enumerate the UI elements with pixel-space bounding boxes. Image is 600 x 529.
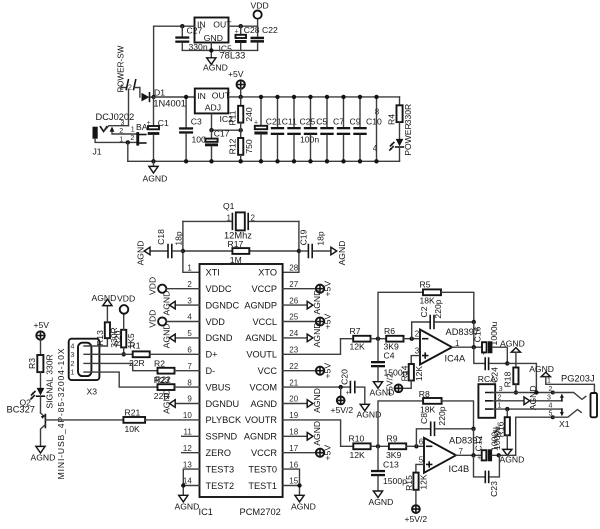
wire J1 down to ground rail [127,142,129,161]
svg-text:R6: R6 [384,326,395,336]
svg-text:2: 2 [415,330,420,339]
svg-text:AGNDL: AGNDL [245,333,277,343]
node C2 feedback [472,320,476,324]
svg-text:12K: 12K [350,342,366,352]
svg-text:R14: R14 [400,365,410,381]
wire D1 node to IC2 input [154,96,195,98]
wire jack pin1 sleeve [546,384,595,393]
svg-text:C22: C22 [262,25,278,35]
svg-text:ADJ: ADJ [205,103,221,113]
svg-text:330R: 330R [44,354,54,375]
wire output A [452,346,482,348]
svg-text:DGND: DGND [206,333,233,343]
connector J1 DCJ0202 [93,112,137,156]
node C17 bottom [209,159,213,163]
ground AGND jack sleeve [529,364,554,384]
resistor R13 [95,306,119,348]
terminal +5V/2 VCOM [331,387,354,415]
resistor R17 1M [183,239,299,265]
svg-text:VDD: VDD [117,294,135,304]
node R18 bottom [514,390,518,394]
ground AGND above R18 [500,339,525,368]
capacitor C17 [203,128,230,161]
svg-text:1: 1 [131,127,135,134]
capacitor C21 [254,95,282,164]
svg-text:X1: X1 [559,419,570,429]
ground AGND pin26 [283,290,322,315]
resistor R16 [492,409,510,450]
resistor R12 750 [228,130,255,161]
capacitor C12 1000u [474,427,516,462]
node C1 ground [151,159,155,163]
svg-text:VOUTL: VOUTL [246,350,277,360]
svg-text:VCCP: VCCP [251,284,277,294]
op-amp IC4A AD8397 [415,327,479,365]
svg-text:25: 25 [289,313,298,322]
svg-text:+5V: +5V [323,313,333,329]
wire feedback down to output A [473,322,475,347]
svg-text:1: 1 [71,370,75,377]
svg-text:VCC: VCC [258,366,278,376]
wire VOUTR pin19 [283,420,354,446]
svg-text:1N4001: 1N4001 [153,98,186,108]
node GND rail [209,48,213,52]
wire jack pin2 switch arm left [551,391,586,400]
svg-text:1: 1 [227,214,232,223]
node R10-R9 junction [376,444,380,448]
svg-text:AGND: AGND [31,453,56,463]
svg-text:3: 3 [415,346,420,355]
svg-text:PCM2702: PCM2702 [240,507,281,517]
svg-text:Q1: Q1 [223,201,235,211]
svg-text:BC327: BC327 [7,405,35,415]
svg-text:C2: C2 [419,306,429,317]
ground AGND after C20 [357,404,382,419]
capacitor C27 [175,25,208,52]
svg-text:R13: R13 [95,330,105,346]
svg-text:8: 8 [375,108,380,117]
wire IC5 GND stub [210,43,212,58]
svg-text:VCCL: VCCL [252,317,277,327]
svg-text:VDD: VDD [148,277,158,295]
svg-text:VDD: VDD [206,317,226,327]
resistor R18 [502,368,518,393]
resistor R5 18K feedback [378,280,474,339]
svg-text:AGND: AGND [161,323,171,348]
svg-text:21: 21 [289,378,298,387]
node rowB join [534,390,538,394]
svg-text:330R: 330R [403,104,413,125]
ground AGND pin5 [161,323,199,348]
svg-text:24: 24 [289,329,298,338]
svg-text:4: 4 [71,343,75,350]
svg-text:4: 4 [187,313,192,322]
svg-text:12K: 12K [350,450,366,460]
svg-text:AGND: AGND [92,293,117,303]
svg-text:16: 16 [289,460,298,469]
connector RCA [478,374,503,418]
wire XTI branch [183,221,200,272]
svg-text:C9: C9 [350,117,361,127]
capacitor C18 18p [150,229,184,258]
svg-text:AGND: AGND [528,385,538,410]
svg-text:R7: R7 [350,326,361,336]
wire X3 pin2 D- [84,363,158,370]
svg-text:AGNDP: AGNDP [244,300,277,310]
svg-text:VDDC: VDDC [206,284,232,294]
regulator IC5 78L33 [195,18,246,61]
resistor R3 330R [27,354,54,388]
svg-text:1: 1 [120,85,124,92]
svg-text:4: 4 [373,144,378,153]
svg-text:AGND: AGND [312,290,322,315]
svg-text:IC4B: IC4B [449,464,470,474]
capacitor C5 [304,95,328,164]
svg-text:20: 20 [289,395,298,404]
pin number labels IC1 [183,264,299,486]
svg-text:OUT: OUT [213,20,232,30]
svg-text:+5V: +5V [228,69,244,79]
svg-text:3: 3 [187,296,192,305]
capacitor C16 1000u [473,321,508,363]
capacitor C22 [251,25,278,50]
svg-text:C5: C5 [316,117,327,127]
node inverting input B [414,444,418,448]
svg-text:C20: C20 [339,369,349,385]
svg-text:AGND: AGND [312,388,322,413]
svg-text:DGNDU: DGNDU [206,399,240,409]
capacitor C20 [339,369,365,404]
svg-text:12K: 12K [419,474,429,490]
svg-text:VOUTR: VOUTR [245,415,278,425]
svg-text:+5V: +5V [323,363,333,379]
svg-text:AGND: AGND [529,364,554,374]
resistor R9 3K9 [386,434,424,460]
ground AGND pins16-15 [291,495,316,511]
capacitor C11 [271,95,297,164]
svg-text:D-: D- [206,366,216,376]
svg-text:R18: R18 [502,371,512,387]
op-amp IC4B AD8397 [419,436,483,474]
ground AGND under R16 [500,449,525,464]
node C27 top [180,24,184,28]
connector BA battery [130,122,147,145]
svg-text:R9: R9 [387,434,398,444]
ground AGND under C13 [369,491,394,507]
svg-text:2: 2 [187,280,192,289]
svg-text:POWER: POWER [403,123,413,155]
svg-text:2: 2 [71,361,75,368]
ground AGND pin9 [161,389,199,414]
svg-text:1000u: 1000u [489,321,499,345]
wire TEST0-TEST1 tie pins16-15 [283,469,300,495]
wire output B [456,454,482,456]
node R7-R6 junction [376,337,380,341]
node inverting input A [410,337,414,341]
svg-text:XTO: XTO [258,268,277,278]
svg-text:17: 17 [289,444,298,453]
capacitor C4 1500p [371,339,408,382]
wire X3 pin1 VBUS [84,372,158,387]
resistor R1 22R [129,341,200,369]
svg-text:ZERO: ZERO [206,448,232,458]
svg-text:240: 240 [244,107,254,122]
node C3 top [184,95,188,99]
svg-text:12: 12 [183,444,192,453]
terminal +5V top [228,69,245,97]
IC U1 PCM2702 body [199,264,283,517]
svg-text:1: 1 [547,378,551,385]
wire vertical from IC5 input down to D1 node [153,26,155,97]
node pin15 [297,483,301,487]
wire IC5 input row [154,25,195,27]
crystal Q1 12Mhz [183,201,299,241]
resistor R20 1K5 pullup [113,314,136,355]
svg-text:22: 22 [289,362,298,371]
wire jack pin3 tip contact [560,394,564,401]
node R11 bottom [239,128,243,132]
svg-text:SSPND: SSPND [206,432,238,442]
wire RCA pin3 to jack pin2 [495,392,553,394]
svg-text:27: 27 [289,280,298,289]
capacitor C7 [320,95,344,164]
LED SIGNAL [31,377,54,413]
node VCOM [339,385,343,389]
terminal +5V/2 bias B [405,505,428,524]
ground AGND pins13-14 [175,495,200,511]
capacitor C3 100n [179,97,211,161]
capacitor C13 1500p [371,446,407,491]
resistor R8 18K feedback [378,389,474,446]
svg-text:2: 2 [119,128,123,135]
svg-text:C1: C1 [158,118,169,128]
svg-text:6: 6 [187,346,192,355]
svg-text:VDD: VDD [147,310,157,328]
svg-text:R22: R22 [155,374,171,384]
resistor R21 10K [123,407,199,434]
ground AGND under IC5 [203,58,228,73]
node left channel out [505,361,509,365]
switch POWER-SW [117,45,140,125]
svg-text:TEST1: TEST1 [248,481,277,491]
wire VCOM pin21 [283,386,350,388]
svg-text:R8: R8 [419,389,430,399]
svg-text:3: 3 [121,120,125,127]
wire right channel to jack pin5 [516,417,553,455]
capacitor C23 [474,455,500,497]
svg-text:AGND: AGND [250,399,277,409]
wire XTO branch [283,221,299,272]
resistor R4 330R [386,97,413,139]
svg-text:TEST3: TEST3 [206,464,235,474]
svg-text:TEST2: TEST2 [206,481,235,491]
wire left channel to jack branch [507,363,536,392]
svg-text:SIGNAL: SIGNAL [44,377,54,409]
svg-text:3: 3 [499,386,503,393]
svg-text:4: 4 [549,402,553,409]
svg-text:AGND: AGND [143,174,168,184]
svg-text:C13: C13 [383,459,399,469]
svg-text:R1: R1 [130,341,141,351]
svg-text:7: 7 [459,447,464,456]
svg-text:AGND: AGND [291,502,316,512]
svg-text:12K: 12K [414,366,424,382]
svg-text:C10: C10 [366,117,382,127]
svg-text:10: 10 [183,411,192,420]
svg-text:C27: C27 [187,25,203,35]
node C8 feedback [471,427,475,431]
diode D1 1N4001 [142,88,186,109]
svg-text:R20: R20 [113,330,123,346]
svg-text:VCCR: VCCR [251,448,277,458]
svg-text:AGNDR: AGNDR [244,432,278,442]
svg-text:R12: R12 [228,138,238,154]
svg-text:+5V: +5V [323,445,333,461]
capacitor C10 100n [300,95,382,164]
node XTI [181,249,185,253]
svg-text:22R: 22R [154,391,170,401]
svg-text:OUT: OUT [212,91,231,101]
svg-text:R21: R21 [125,407,141,417]
ground AGND pin3 [161,291,199,316]
svg-text:VDD: VDD [251,1,269,11]
svg-text:7: 7 [187,362,192,371]
svg-text:C4: C4 [384,350,395,360]
svg-text:13: 13 [183,460,192,469]
wire op-amp supply pins 8-4 [373,95,380,164]
svg-text:C25: C25 [300,117,316,127]
node ADJ C17 [209,128,213,132]
wire IC5 ground rail [182,49,257,51]
svg-text:8: 8 [187,378,192,387]
resistor R11 240 [228,97,255,130]
svg-text:IC4A: IC4A [445,354,466,364]
ground AGND left of C18 [135,241,150,266]
node R12 bottom [239,159,243,163]
svg-text:AGND: AGND [337,241,347,266]
svg-text:AGND: AGND [312,421,322,446]
wire jack pin5 switch arm left [551,410,581,420]
svg-text:AGND: AGND [369,497,394,507]
svg-text:VBUS: VBUS [206,382,231,392]
svg-text:9: 9 [187,395,192,404]
capacitor C19 18p [299,229,331,257]
terminal VDD [251,1,269,27]
wire X3 pin3 D+ [84,353,133,355]
svg-text:C11: C11 [282,117,297,127]
capacitor C8 220p [416,406,473,446]
svg-text:+5V/2: +5V/2 [385,373,395,396]
svg-text:R17: R17 [228,239,244,249]
node D1 cathode [151,95,155,99]
svg-text:5: 5 [419,455,424,464]
svg-text:18: 18 [289,428,298,437]
capacitor C25 [287,95,315,164]
wire IC2 ADJ stub [212,113,241,130]
svg-text:DGNDC: DGNDC [206,300,240,310]
svg-text:X3: X3 [87,386,98,396]
svg-text:XTI: XTI [206,268,220,278]
capacitor C1 [147,97,169,161]
resistor R2 22R [154,359,200,374]
svg-text:18p: 18p [174,231,184,246]
svg-text:+5V/2: +5V/2 [405,514,428,524]
svg-text:R2: R2 [154,359,165,369]
svg-text:MINI-USB_4P-85-32004-10X: MINI-USB_4P-85-32004-10X [56,348,66,480]
svg-text:C7: C7 [333,117,344,127]
svg-text:19: 19 [289,411,298,420]
svg-text:100n: 100n [300,134,319,144]
wire TEST3-TEST2 tie pins13-14 [183,469,199,495]
svg-text:18p: 18p [316,231,326,246]
svg-text:D+: D+ [206,350,218,360]
svg-text:D1: D1 [154,88,165,98]
svg-text:C16: C16 [473,326,483,342]
svg-text:R15: R15 [404,475,414,491]
wire jack pin4 contact [560,409,564,416]
jack body plug [591,393,598,417]
terminal +5V pin22 [283,363,333,379]
svg-text:C3: C3 [191,116,202,126]
svg-text:R3: R3 [27,358,37,369]
wire feedback down to output B [473,429,475,456]
capacitor C24 [474,347,508,383]
svg-text:+: + [477,455,481,462]
connector X1 PG203J [547,374,595,430]
ground AGND pin24 [283,322,322,347]
terminal +5V pin27 [283,281,333,297]
svg-text:R4: R4 [386,114,396,125]
ground AGND pin20 [283,388,322,413]
resistor R15 12K bias B [404,464,429,505]
resistor R6 3K9 [384,326,421,352]
svg-text:R5: R5 [420,280,431,290]
svg-text:3: 3 [547,394,551,401]
wire RCA pin2 ground row [495,400,562,402]
node right channel out [497,453,501,457]
ground AGND under C4 [370,382,395,398]
node R16 top [505,407,509,411]
svg-text:78L33: 78L33 [220,51,246,61]
svg-text:C19: C19 [299,229,309,245]
transistor Q2 BC327 [7,398,124,447]
svg-text:C17: C17 [214,128,230,138]
ground AGND right of C19 [331,241,347,266]
node pin14 [181,483,185,487]
svg-text:AGND: AGND [135,241,145,266]
terminal +5V left [34,320,50,355]
wire +5V rail [228,96,399,98]
svg-text:PLYBCK: PLYBCK [206,415,242,425]
svg-text:RCA: RCA [478,374,496,384]
svg-text:2: 2 [130,135,134,142]
svg-text:J1: J1 [93,147,102,157]
node output A feedback tap [472,345,476,349]
svg-text:IC1: IC1 [199,507,213,517]
ground AGND under Q2 [31,446,56,462]
svg-text:28: 28 [289,264,298,273]
ground AGND above R13 [92,293,117,306]
terminal VDD pin2 [148,277,200,295]
svg-text:AGND: AGND [203,63,228,73]
svg-text:26: 26 [289,296,298,305]
svg-text:15: 15 [289,477,298,486]
svg-text:3K9: 3K9 [386,450,402,460]
node R11 top [239,95,243,99]
resistor R22 22R [154,374,200,400]
terminal VDD pin4 [147,310,199,328]
svg-text:AGND: AGND [312,322,322,347]
